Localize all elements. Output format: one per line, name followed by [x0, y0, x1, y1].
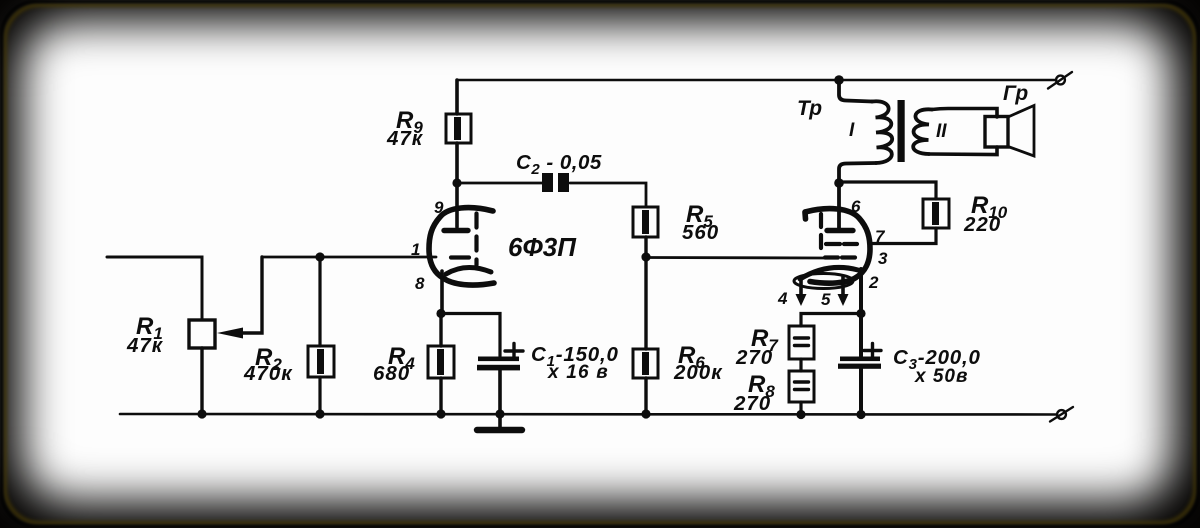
wire secondary top lead [932, 109, 997, 118]
wire transformer primary bottom lead [839, 163, 876, 182]
wire grid of input tube [262, 256, 436, 259]
resistor R6 [633, 349, 658, 378]
svg-text:х 16 в: х 16 в [547, 362, 609, 383]
heater pin 4 arrow [796, 277, 807, 306]
wire transformer primary top lead [839, 80, 872, 102]
capacitor C3 plus sign [864, 344, 881, 358]
tube V1a anode lead pin 9 [455, 183, 459, 227]
resistor R5 [633, 207, 658, 237]
tube V1a triode envelope [429, 208, 494, 285]
tube V1a envelope cut dashed [474, 214, 478, 266]
svg-text:II: II [936, 121, 947, 142]
svg-text:47к: 47к [386, 127, 424, 150]
resistor R7 [789, 326, 814, 359]
speaker Gr driver box [985, 117, 1008, 148]
speaker Gr horn [1008, 106, 1034, 157]
node junction grid/R2 [315, 252, 324, 261]
svg-text:7: 7 [875, 227, 886, 246]
resistor R4 [428, 346, 454, 378]
wire R1 to rail [200, 348, 203, 414]
node junction cathode/C3/R7 [856, 309, 865, 318]
wire R4 to rail [439, 378, 442, 414]
resistor R8 [789, 371, 814, 402]
svg-text:270: 270 [735, 346, 773, 369]
wire R5 to R6 [644, 237, 647, 349]
node junction R1/rail [197, 409, 206, 418]
resistor R9 [446, 114, 471, 143]
svg-text:8: 8 [415, 274, 425, 293]
svg-text:4: 4 [777, 289, 788, 308]
wire R9 branch vertical [455, 80, 459, 183]
heater pin 5 arrow [838, 277, 849, 306]
svg-text:6: 6 [851, 197, 861, 216]
bottom rail [120, 413, 1057, 416]
wire C3 lead [859, 314, 863, 357]
svg-text:470к: 470к [243, 362, 293, 385]
wire R2 to rail [318, 377, 321, 414]
wiper arrowhead [217, 328, 243, 339]
wire secondary bottom lead [929, 147, 997, 155]
svg-text:5: 5 [821, 290, 831, 309]
tube V1b anode plate [827, 228, 853, 233]
node junction R8/rail [796, 410, 805, 419]
tube V1a grid dash [451, 255, 469, 259]
tube V1b screen grid dashes [826, 242, 857, 246]
node junction C1/rail [495, 409, 504, 418]
wire R7 to R8 [799, 359, 802, 371]
node junction cathode/R4/C1 [436, 309, 445, 318]
transformer Tr secondary winding II [913, 109, 932, 154]
transformer core [898, 100, 905, 162]
wire C2 coupling [457, 183, 646, 207]
tube V1b pentode envelope [805, 209, 870, 284]
svg-text:3: 3 [878, 249, 888, 268]
wire wiper arm R1 [243, 257, 262, 333]
svg-text:C2 - 0,05: C2 - 0,05 [516, 151, 602, 178]
node junction R5/R6/grid2 [641, 252, 650, 261]
wire top supply rail [457, 79, 1056, 82]
svg-text:270: 270 [733, 392, 771, 415]
node junction R9/C2/anode [452, 178, 461, 187]
wire R10 bottom to screen pin 7 [869, 228, 936, 244]
node junction C3/rail [856, 410, 865, 419]
tube V1a cathode lead pin 8 [440, 271, 444, 314]
node junction top rail / transformer [834, 75, 844, 85]
wire R8 to rail [799, 402, 802, 415]
terminal top right [1048, 72, 1072, 89]
svg-text:200к: 200к [673, 361, 723, 384]
node junction R2/rail [315, 409, 324, 418]
wire R6 to rail [644, 378, 647, 414]
tube V1b heater loop [794, 274, 853, 289]
capacitor C1 plates [477, 357, 520, 371]
tube V1b envelope cut dashed [819, 214, 823, 251]
svg-text:680: 680 [373, 362, 410, 385]
wire cathode pin 2 down [859, 269, 863, 314]
node junction R6/rail [641, 409, 650, 418]
wire R4 top [439, 314, 442, 347]
svg-text:2: 2 [868, 273, 879, 292]
svg-text:1: 1 [411, 240, 420, 259]
resistor R10 [923, 199, 949, 228]
wire R10 top branch [839, 182, 936, 199]
wire C3 to rail [859, 369, 863, 415]
wire branch to R7 [801, 314, 861, 327]
potentiometer R1 body [189, 320, 215, 348]
capacitor C3 plates [838, 357, 881, 369]
svg-text:Гр: Гр [1003, 82, 1028, 105]
wire input left [107, 257, 202, 320]
svg-text:560: 560 [682, 221, 719, 244]
svg-text:6Ф3П: 6Ф3П [508, 232, 577, 262]
svg-text:9: 9 [434, 198, 444, 217]
svg-text:I: I [849, 120, 855, 141]
ground chassis bar [477, 427, 522, 433]
tube V1b anode lead pin 6 [837, 183, 841, 228]
svg-text:Тр: Тр [797, 97, 822, 120]
tube V1b cathode arc [800, 267, 858, 279]
transformer Tr primary winding I [872, 101, 892, 163]
svg-text:х 50в: х 50в [914, 366, 968, 387]
tube V1a cathode arc [446, 267, 491, 274]
node junction primary bottom / anode [834, 178, 844, 188]
capacitor C2 [542, 173, 569, 192]
svg-text:220: 220 [963, 213, 1001, 236]
wire C1 to rail [498, 370, 502, 427]
node junction R4/rail [436, 409, 445, 418]
resistor R2 [308, 346, 334, 377]
tube V1a anode plate [444, 228, 468, 233]
tube V1b control grid dashes [825, 255, 855, 259]
wire R2 top [318, 257, 321, 346]
terminal bottom right [1050, 407, 1073, 422]
capacitor C1 plus sign [505, 344, 523, 359]
wire C1 branch [441, 314, 500, 357]
wire grid of output tube [646, 256, 824, 259]
svg-text:47к: 47к [126, 334, 164, 357]
